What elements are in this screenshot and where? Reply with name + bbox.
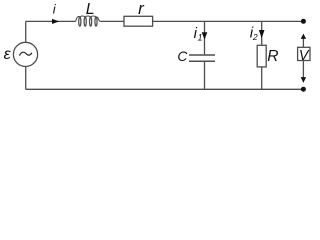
svg-text:2: 2 (252, 32, 258, 42)
svg-text:r: r (138, 0, 145, 18)
svg-text:L: L (86, 1, 95, 18)
svg-text:ε: ε (4, 46, 12, 63)
svg-text:i: i (53, 1, 57, 16)
svg-text:V: V (299, 48, 310, 64)
svg-text:C: C (177, 49, 188, 64)
svg-text:R: R (267, 48, 278, 65)
svg-text:1: 1 (198, 33, 203, 43)
